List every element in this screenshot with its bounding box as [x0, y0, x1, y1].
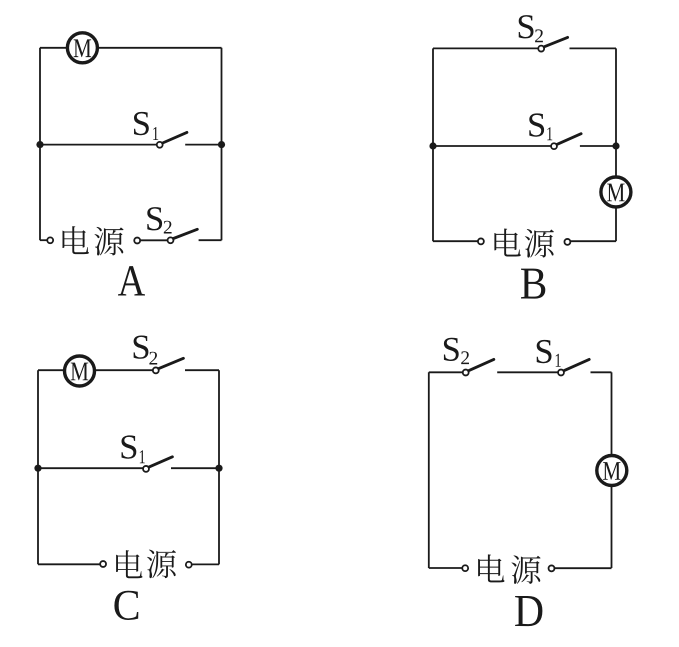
label 源 of circuit D power source	[511, 555, 540, 584]
label S2 of circuit C	[134, 335, 158, 364]
label 电 of circuit C power source	[116, 550, 142, 578]
wire: circuit C top edge right segment	[185, 369, 219, 371]
label 电 of circuit D power source	[478, 554, 504, 582]
label: option letter D	[515, 596, 542, 626]
wire: circuit C middle branch left segment	[38, 467, 143, 469]
battery terminal left, circuit D	[462, 565, 468, 571]
wire: circuit A right edge	[221, 48, 223, 240]
wire: circuit B right edge lower	[615, 192, 617, 241]
switch S1 of circuit A (pivot, blade)	[157, 132, 187, 147]
wire: circuit A left edge	[39, 48, 41, 240]
label 源 of circuit C power source	[147, 550, 176, 579]
wire: circuit B top edge right segment	[570, 47, 617, 49]
wire: circuit C right edge	[218, 370, 220, 564]
motor M of circuit C	[65, 356, 95, 386]
label S2 of circuit D	[444, 338, 469, 364]
switch S2 of circuit A (pivot, blade)	[168, 229, 198, 243]
motor M of circuit A	[67, 33, 97, 63]
wire: circuit A bottom segment to S2	[141, 239, 168, 241]
wire: circuit D bottom left segment	[429, 567, 462, 569]
wire: circuit D right edge upper	[611, 372, 613, 470]
battery terminal left, circuit A	[47, 237, 53, 243]
node: junction dot right, circuit A middle branch	[218, 141, 225, 148]
wire: circuit B bottom left segment	[433, 240, 478, 242]
motor M of circuit D	[597, 456, 627, 486]
wire: circuit D bottom right segment	[555, 567, 612, 569]
switch S2 of circuit B (pivot, blade)	[538, 37, 567, 51]
wire: circuit C bottom right segment	[192, 563, 219, 565]
wire: circuit C top edge left segment	[38, 369, 153, 371]
label S2 of circuit A	[147, 207, 171, 233]
wire: circuit B bottom right segment	[571, 240, 616, 242]
label: option letter C	[114, 591, 138, 620]
label S1 of circuit A	[134, 112, 158, 140]
wire: circuit D right edge lower	[611, 471, 613, 569]
wire: circuit D top edge right stub	[591, 371, 612, 373]
wire: circuit C left edge	[37, 370, 39, 564]
wire: circuit A bottom left stub	[40, 239, 47, 241]
battery terminal right, circuit C	[186, 562, 192, 568]
label 源 of circuit A power source	[94, 227, 123, 256]
label S1 of circuit C	[121, 435, 144, 463]
node: junction dot right, circuit C middle branch	[215, 465, 222, 472]
switch S1 of circuit C (pivot, blade)	[143, 457, 172, 472]
wire: circuit C middle branch right segment	[171, 467, 219, 469]
wire: circuit A middle branch left segment	[40, 144, 157, 146]
wire: circuit B top edge left segment	[433, 47, 538, 49]
switch S2 of circuit D (pivot, blade)	[463, 359, 494, 375]
label: option letter B	[521, 269, 545, 299]
battery terminal left, circuit C	[100, 561, 106, 567]
wire: circuit B middle branch right segment	[580, 145, 616, 147]
battery terminal right, circuit D	[549, 565, 555, 571]
label 电 of circuit B power source	[494, 228, 520, 256]
node: junction dot left, circuit A middle branch	[36, 141, 43, 148]
label S1 of circuit B	[529, 113, 552, 140]
wire: circuit B left edge	[432, 48, 434, 241]
battery terminal right, circuit A	[134, 238, 140, 244]
switch S1 of circuit B (pivot, blade)	[551, 134, 581, 149]
wire: circuit B right edge upper	[615, 48, 617, 192]
wire: circuit C bottom left segment	[38, 563, 100, 565]
label: option letter A	[118, 266, 145, 295]
switch S1 of circuit D (pivot, blade)	[558, 359, 589, 375]
wire: circuit A bottom right segment	[199, 239, 222, 241]
wire: circuit D top edge middle segment	[497, 371, 558, 373]
node: junction dot right, circuit B middle branch	[612, 142, 619, 149]
label S1 of circuit D	[537, 340, 561, 367]
wire: circuit A middle branch right segment	[185, 144, 221, 146]
motor M of circuit B	[601, 177, 631, 207]
wire: circuit B middle branch left segment	[433, 145, 551, 147]
wire: circuit D left edge	[428, 372, 430, 568]
label 电 of circuit A power source	[63, 226, 89, 254]
node: junction dot left, circuit B middle branch	[429, 142, 436, 149]
wire: circuit D top edge left stub	[429, 371, 463, 373]
wire: circuit A top edge	[40, 47, 222, 49]
label S2 of circuit B	[519, 15, 543, 42]
switch S2 of circuit C (pivot, blade)	[153, 358, 184, 373]
label 源 of circuit B power source	[525, 229, 554, 258]
battery terminal right, circuit B	[564, 239, 570, 245]
battery terminal left, circuit B	[478, 238, 484, 244]
node: junction dot left, circuit C middle branch	[34, 465, 41, 472]
